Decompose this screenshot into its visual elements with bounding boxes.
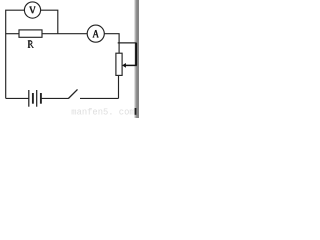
rheostat box <box>116 53 122 75</box>
ammeter A circle <box>87 25 104 42</box>
svg-text:manfen5. com: manfen5. com <box>71 108 134 118</box>
wire: ammeter right, corner down to rheostat top <box>104 34 119 54</box>
wire: voltmeter right, corner down to resistor line <box>41 10 58 34</box>
resistor R box <box>19 30 42 37</box>
background <box>0 0 139 118</box>
label A (serif) <box>93 30 99 37</box>
battery plate short 1 <box>32 93 34 104</box>
wire: rheostat wiper vertical (over gray bar) <box>135 43 137 66</box>
wiper arrowhead <box>122 63 126 68</box>
battery plate long 1 <box>28 90 30 107</box>
gray sidebar strip <box>134 0 139 118</box>
label V (serif) <box>29 7 35 13</box>
wire: rheostat wiper horizontal <box>118 42 137 44</box>
sidebar dark tick <box>135 108 137 115</box>
wire: battery to switch <box>42 97 69 99</box>
label R (serif) <box>28 41 34 48</box>
voltmeter V circle <box>24 2 40 18</box>
battery plate short 2 <box>40 93 42 104</box>
wire: rheostat bottom lead down to bottom wire <box>118 75 120 98</box>
wire: bottom left to battery <box>6 97 29 99</box>
wire: left vertical to resistor box <box>6 33 19 35</box>
wire: resistor to ammeter <box>42 33 87 35</box>
wire: left vertical + top horizontal to voltmeter <box>6 10 24 98</box>
wire: switch to bottom right corner <box>80 97 119 99</box>
battery plate long 2 <box>36 90 38 107</box>
wiper arrow shaft <box>125 64 136 66</box>
switch blade (open) <box>68 89 77 98</box>
